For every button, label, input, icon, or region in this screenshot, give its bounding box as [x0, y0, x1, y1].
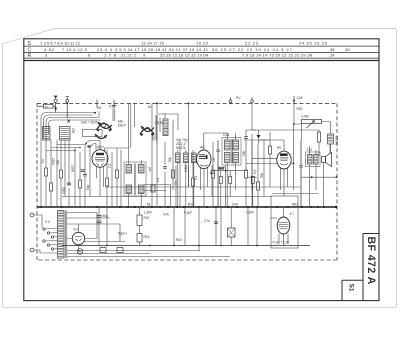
output transformer T3: [306, 146, 321, 207]
title block BF 472 A: [363, 234, 379, 301]
label 5025: [52, 158, 56, 165]
svg-text:4 52: 4 52: [44, 47, 55, 52]
wire grid feed with junction: [188, 102, 190, 187]
node stub at shield x114: [112, 100, 117, 108]
mid droppers: [152, 120, 180, 207]
svg-text:36 29 27 22 23 30 24 34 9 27: 36 29 27 22 23 30 24 34 9 27: [212, 47, 293, 52]
svg-text:R61: R61: [292, 202, 298, 206]
svg-text:A 2: A 2: [74, 228, 79, 232]
resistor R10: [245, 170, 248, 178]
resistor R20: [251, 176, 254, 207]
label M1: [97, 106, 102, 110]
label C,7k: [204, 219, 210, 223]
svg-text:C4b = 2005: C4b = 2005: [81, 121, 98, 125]
wire avc row: [212, 165, 257, 207]
tube V3 (AL output): [246, 124, 294, 196]
label 2005: [152, 134, 156, 141]
svg-text:S1: S1: [348, 284, 355, 292]
svg-text:0,5M: 0,5M: [302, 115, 309, 119]
label C18: [109, 105, 115, 109]
svg-text:3 5 3 34 17 15 28 18 41 34 21: 3 5 3 34 17 15 28 18 41 34 21 37 15 14 3…: [115, 47, 209, 52]
svg-text:13 14 17 16: 13 14 17 16: [141, 41, 165, 46]
wire osc returns: [144, 166, 189, 207]
resistor R9: [212, 170, 215, 178]
capacitor C7: [216, 140, 220, 207]
wires top right bundle: [259, 139, 271, 141]
capacitor C12: [117, 248, 123, 253]
svg-text:1n: 1n: [41, 159, 45, 163]
capacitor C4b: [81, 170, 85, 172]
resistor R6: [116, 170, 119, 178]
svg-text:0,1: 0,1: [108, 163, 112, 168]
svg-text:C48: C48: [297, 96, 303, 100]
svg-text:BF 472 A: BF 472 A: [365, 237, 377, 285]
label C4b 2005: [81, 121, 98, 125]
resistor R5: [106, 178, 109, 186]
svg-text:0,1: 0,1: [194, 175, 198, 180]
svg-text:P (4) 7 C19: P (4) 7 C19: [273, 241, 289, 245]
svg-text:4,7: 4,7: [290, 212, 295, 216]
svg-text:8027: 8027: [71, 165, 75, 172]
coil L5: [163, 129, 168, 136]
loudspeaker LS: [322, 144, 332, 207]
svg-text:7 10 6 12 9: 7 10 6 12 9: [62, 47, 88, 52]
main ground bus: [37, 206, 336, 208]
svg-text:0,5M: 0,5M: [184, 165, 188, 172]
svg-text:5k: 5k: [147, 202, 151, 206]
variable capacitor C2 gang A (bold curved arrows): [95, 122, 112, 139]
capacitor C1 (antenna series, box on shield line): [37, 104, 55, 108]
wire output return: [272, 176, 337, 193]
svg-text:1 7 8: 1 7 8: [104, 53, 117, 58]
label R44: [176, 238, 182, 242]
bias rail: [105, 186, 300, 188]
svg-text:24 25 26 29: 24 25 26 29: [299, 41, 328, 46]
label 47k: [174, 180, 178, 186]
shield crossing junction dots: [66, 102, 231, 104]
coil L7: [184, 150, 189, 207]
capacitor C11: [100, 248, 106, 253]
coil L6 (osc padder): [176, 150, 181, 207]
svg-text:R52: R52: [297, 107, 303, 111]
svg-text:1 3 5 6 7 8 9 10 11 12: 1 3 5 6 7 8 9 10 11 12: [40, 41, 81, 46]
row S numbers: [40, 41, 328, 46]
drawing frame: [24, 39, 379, 301]
coil L2 (oscillator coil): [60, 127, 76, 141]
wire grid feeds to V1: [85, 141, 100, 151]
resistor R11: [257, 182, 260, 190]
lower supply rail: [62, 245, 310, 247]
capacitor C3: [67, 183, 71, 185]
osc area link wires: [46, 145, 85, 152]
svg-text:R23: R23: [188, 202, 194, 206]
resistor R1: [45, 168, 48, 176]
labels above bus: [147, 202, 298, 206]
chassis shield dashed enclosure: [37, 103, 337, 260]
svg-text:50 47k: 50 47k: [176, 146, 186, 150]
node C48 stub above shield: [293, 96, 303, 111]
resistor R18: [219, 171, 222, 207]
voltage selector taps: [34, 215, 58, 253]
droppers between V1 and IF T1: [107, 148, 121, 207]
capacitor C6: [155, 115, 159, 144]
bus junction dots: [40, 206, 337, 208]
power transformer T4: [45, 211, 67, 259]
label R42: [144, 216, 150, 220]
label C3045 vertical: [335, 136, 339, 146]
capacitor C15: [210, 172, 214, 174]
label 80: [160, 121, 164, 125]
svg-text:M1: M1: [97, 106, 102, 110]
svg-text:100p: 100p: [61, 187, 65, 194]
label cluster 4n7 70p: [176, 138, 188, 150]
svg-text:205: 205: [71, 128, 75, 134]
value labels column (left): [41, 159, 90, 190]
svg-text:24: 24: [330, 53, 335, 58]
svg-text:7 9 18 14 14 75 29 12 15 31 29: 7 9 18 14 14 75 29 12 15 31 29 38: [242, 53, 313, 58]
label 0,1uF bottom: [184, 211, 192, 215]
svg-text:AF: AF: [199, 146, 206, 150]
svg-text:AL: AL: [276, 146, 282, 150]
row R numbers: [45, 53, 335, 58]
resistor R12: [269, 146, 272, 154]
svg-text:S II: S II: [45, 220, 50, 224]
svg-text:Min.: Min.: [118, 120, 124, 124]
wire V1 anode to T1: [105, 148, 129, 160]
resistor R7: [172, 170, 175, 178]
variable capacitor C2 gang B (osc): [140, 126, 154, 136]
dial lamp LA1: [77, 249, 83, 255]
mains terminal P2: [30, 248, 34, 252]
diode D1: [257, 130, 261, 144]
svg-text:25 26 12 18 12 15 19 04: 25 26 12 18 12 15 19 04: [160, 53, 209, 58]
component locator table lines: [24, 46, 379, 60]
svg-text:1,5nF: 1,5nF: [246, 211, 254, 215]
pickup terminals PU: [229, 96, 319, 190]
svg-text:C7k: C7k: [204, 219, 210, 223]
IF transformer T2: [222, 133, 241, 207]
svg-text:39: 39: [345, 47, 350, 52]
resistor R4: [79, 180, 82, 188]
coil L4 (osc trimmer): [163, 119, 168, 127]
svg-text:4,7k: 4,7k: [163, 213, 169, 217]
lower droppers: [107, 207, 257, 251]
svg-text:1M: 1M: [212, 157, 216, 162]
svg-text:19 20: 19 20: [196, 41, 209, 46]
osc section wire loop: [157, 103, 178, 130]
row C numbers: [44, 47, 350, 52]
resistor R2: [50, 183, 53, 191]
volume potentiometer R13: [293, 103, 330, 140]
value labels column (mid): [148, 150, 264, 182]
wire coupling rectangle: [83, 130, 103, 137]
title block S1: [342, 280, 363, 300]
svg-text:R: R: [28, 53, 32, 59]
label 1,5nF right: [246, 211, 254, 215]
svg-text:0,1: 0,1: [156, 177, 160, 182]
detector droppers: [246, 130, 270, 207]
junction dots lower rail: [106, 245, 258, 247]
resistor R14: [318, 130, 321, 156]
wire loop bundle (bandswitch wiring): [41, 103, 165, 140]
electrolytic C10 (50uF+50uF): [97, 207, 128, 246]
resistor R17: [151, 185, 155, 192]
mains terminal P1: [30, 213, 34, 217]
resistor R15: [137, 207, 142, 234]
svg-text:R47: R47: [219, 167, 225, 171]
choke L3: [328, 122, 334, 154]
svg-text:R42: R42: [144, 216, 150, 220]
svg-text:21 22 2: 21 22 2: [121, 53, 137, 58]
svg-text:C3045: C3045: [335, 136, 339, 146]
capacitor C4: [83, 174, 87, 176]
resistor R3: [60, 170, 63, 178]
label 4,7k: [137, 212, 169, 217]
resistor R16: [137, 234, 142, 246]
svg-text:ACH: ACH: [96, 145, 104, 149]
svg-text:R44: R44: [176, 238, 182, 242]
label DET: [118, 120, 127, 128]
resistor R19: [229, 171, 232, 197]
node stub at shield x97: [96, 100, 98, 108]
svg-text:PU: PU: [236, 96, 241, 100]
mid-left dropper wires: [75, 148, 90, 207]
label R43: [144, 235, 150, 239]
svg-text:67: 67: [88, 145, 92, 149]
left dropper wires to bus: [41, 136, 69, 207]
capacitor C5: [163, 167, 167, 169]
svg-text:C44: C44: [232, 202, 238, 206]
trimmer mark x: [67, 120, 70, 123]
tube V1 (ACH1 converter): [92, 145, 108, 197]
tube V5 (rectifier): [67, 224, 97, 252]
svg-text:50k: 50k: [168, 156, 172, 162]
tube V4 (tuning indicator): [271, 207, 294, 246]
capacitor C9: [299, 140, 303, 207]
svg-text:38: 38: [330, 47, 335, 52]
wire pair C18 drop: [129, 103, 135, 148]
power area wires: [67, 213, 230, 257]
label 0,1uF: [108, 163, 112, 168]
svg-text:50p: 50p: [86, 184, 90, 190]
svg-text:25k: 25k: [242, 150, 246, 156]
svg-text:61: 61: [148, 105, 152, 109]
droppers near V2: [193, 142, 213, 207]
svg-text:0,5: 0,5: [253, 169, 257, 174]
coil L1 (aerial coil): [43, 127, 51, 141]
svg-text:0,05: 0,05: [223, 133, 229, 137]
magic eye assembly box: [271, 196, 298, 248]
svg-text:500: 500: [56, 159, 60, 165]
svg-text:4n7: 4n7: [148, 166, 152, 172]
resistor R8: [192, 178, 195, 186]
earth terminal E1: [66, 97, 69, 118]
coil L8: [192, 153, 197, 207]
svg-text:1n: 1n: [45, 104, 48, 108]
svg-text:50k: 50k: [260, 172, 264, 178]
capacitor C13 (screened, boxed X): [228, 207, 236, 246]
label 100p: [61, 187, 65, 194]
svg-text:C18: C18: [109, 105, 115, 109]
tube V2 (AF amplifier): [197, 133, 228, 207]
wire detector top: [244, 130, 268, 140]
svg-text:2005: 2005: [152, 134, 156, 141]
svg-text:0,1µF: 0,1µF: [184, 211, 192, 215]
svg-text:47k: 47k: [174, 180, 178, 186]
svg-text:R43: R43: [144, 235, 150, 239]
svg-text:5025: 5025: [52, 158, 56, 165]
svg-text:50µF+: 50µF+: [118, 232, 127, 236]
svg-text:23 4 4: 23 4 4: [97, 47, 113, 52]
table row labels S C R: [28, 41, 32, 59]
svg-text:1,5nF: 1,5nF: [144, 211, 152, 215]
svg-text:22 23: 22 23: [245, 41, 259, 46]
agc rail: [62, 196, 272, 198]
IF transformer T1: [124, 160, 146, 207]
label 1,5nF: [144, 211, 152, 215]
svg-text:T42: T42: [307, 148, 313, 152]
capacitor C14: [214, 222, 218, 224]
label C1b: [148, 105, 152, 109]
antenna terminal A1: [54, 96, 58, 113]
capacitor C8: [244, 137, 248, 139]
